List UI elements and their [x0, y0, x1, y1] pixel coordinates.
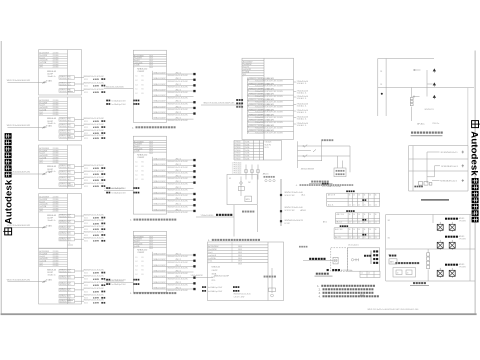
caption AL-21 system diagram	[130, 292, 176, 295]
svg-text:IP55: IP55	[212, 280, 216, 282]
panel block AL-11 (second column)	[133, 136, 195, 214]
sensor output symbols	[351, 258, 358, 261]
svg-text:4.5KW: 4.5KW	[93, 173, 99, 176]
svg-text:1F: 1F	[380, 84, 382, 86]
svg-text:220/380: 220/380	[53, 197, 59, 199]
svg-text:16: 16	[375, 194, 377, 196]
svg-text:4.5KW: 4.5KW	[93, 91, 99, 94]
svg-text:WDZN-BYJ-3x2.5-SC15-WC: WDZN-BYJ-3x2.5-SC15-WC	[168, 167, 189, 169]
svg-text:JZ 1AT1: JZ 1AT1	[46, 224, 53, 227]
svg-text:JV-1.5-4x2.5: JV-1.5-4x2.5	[348, 244, 359, 246]
svg-text:WDZN-BYJ-3x2.5-SC15: WDZN-BYJ-3x2.5-SC15	[234, 294, 251, 296]
svg-text:220/380: 220/380	[53, 199, 59, 201]
svg-text:4.5KW: 4.5KW	[93, 290, 99, 293]
svg-text:ZM 2.2: ZM 2.2	[176, 259, 181, 261]
svg-text:16: 16	[369, 229, 371, 231]
svg-text:220/380: 220/380	[53, 253, 59, 255]
svg-text:WDZN-BYJ-3x2.5-SC15-WC: WDZN-BYJ-3x2.5-SC15-WC	[84, 288, 105, 290]
svg-text:ZM 2.2: ZM 2.2	[176, 176, 181, 178]
ATS box label	[389, 255, 396, 257]
svg-text:WDZN-BYJ-3x2.5-SC15-WC: WDZN-BYJ-3x2.5-SC15-WC	[84, 214, 105, 216]
svg-text:2.5: 2.5	[358, 237, 360, 239]
svg-text:WDZN-BYJ-3x2.5-SC15-WC: WDZN-BYJ-3x2.5-SC15-WC	[168, 273, 189, 275]
svg-text:B1: B1	[142, 179, 144, 181]
elevator right label	[264, 276, 276, 278]
svg-text:16: 16	[369, 214, 371, 216]
svg-text:ZM 2.2: ZM 2.2	[176, 254, 181, 256]
svg-text:B1: B1	[142, 270, 144, 272]
svg-text:L2: L2	[368, 273, 370, 275]
svg-text:WDZN-BYJ-3x2.5-SC15-WC: WDZN-BYJ-3x2.5-SC15-WC	[168, 290, 189, 292]
svg-text:220/380: 220/380	[53, 208, 59, 210]
svg-text:YJV22-4x50+1x25-SC65: YJV22-4x50+1x25-SC65	[104, 188, 123, 190]
svg-text:WDZN-BYJ-3x2.5-SC15-WC: WDZN-BYJ-3x2.5-SC15-WC	[168, 120, 189, 122]
svg-text:AP-B2a: AP-B2a	[417, 123, 425, 126]
svg-text:YJV-4x25+1x16: YJV-4x25+1x16	[297, 96, 308, 98]
svg-text:B1: B1	[142, 76, 144, 78]
riser bus wire	[280, 179, 282, 226]
svg-text:XF 15KW: XF 15KW	[459, 266, 466, 268]
svg-text:220/380: 220/380	[53, 206, 59, 208]
svg-text:2.5: 2.5	[364, 205, 366, 207]
svg-text:SC15: SC15	[84, 85, 88, 87]
svg-text:1. PE-N 25x4: 1. PE-N 25x4	[232, 167, 242, 169]
feeder wire into AL-1	[7, 80, 47, 83]
svg-text:SC15: SC15	[84, 303, 88, 305]
svg-text:~: ~	[212, 284, 213, 286]
svg-text:16: 16	[349, 229, 351, 231]
svg-text:WDZN-BYJ 3x2.5: WDZN-BYJ 3x2.5	[60, 120, 72, 122]
SPD note cluster elevator	[202, 286, 239, 293]
svg-text:SC15: SC15	[84, 235, 88, 237]
table 1 lighting circuits	[327, 190, 380, 206]
svg-text:WDZN-BYJ-3x2.5-SC15-WC: WDZN-BYJ-3x2.5-SC15-WC	[168, 178, 189, 180]
svg-text:220/380: 220/380	[53, 201, 59, 203]
svg-text:WDZN-BYJ-3x2.5-SC15-WC: WDZN-BYJ-3x2.5-SC15-WC	[168, 92, 189, 94]
svg-text:WDZN-BYJ-3x2.5-SC15-WC: WDZN-BYJ-3x2.5-SC15-WC	[168, 75, 189, 77]
panel block AL-5 (left column)	[39, 248, 106, 305]
svg-text:ZM 2.2: ZM 2.2	[176, 198, 181, 200]
svg-text:JZ 1AT1: JZ 1AT1	[46, 279, 53, 282]
svg-text:YJV-4x25+1x16-SC40-FC-WC 35.5K: YJV-4x25+1x16-SC40-FC-WC 35.5KW	[255, 122, 283, 124]
svg-text:220/380: 220/380	[53, 107, 59, 109]
note line under ladder	[296, 184, 353, 187]
fire power rail middle	[386, 248, 475, 250]
SPD note cluster 3	[106, 279, 139, 286]
svg-text:YJV-4x25+1x16-SC40-FC-WC 35.5K: YJV-4x25+1x16-SC40-FC-WC 35.5KW	[255, 91, 283, 93]
caption AL-11 system diagram	[130, 219, 176, 222]
svg-text:YJV-4x25+1x16: YJV-4x25+1x16	[297, 116, 308, 118]
svg-text:1. PE-N 25x4: 1. PE-N 25x4	[232, 165, 242, 167]
svg-text:In>20kA Up<2.5kV: In>20kA Up<2.5kV	[112, 103, 127, 106]
svg-text:WDZN-BYJ-3x2.5-SC15-WC: WDZN-BYJ-3x2.5-SC15-WC	[84, 171, 105, 173]
svg-text:YL: YL	[69, 243, 71, 245]
svg-text:SC15: SC15	[84, 279, 88, 281]
panel block AL-2 (left column)	[39, 97, 106, 141]
svg-text:220/380: 220/380	[53, 62, 59, 64]
svg-text:220/380: 220/380	[53, 204, 59, 206]
svg-text:WDZN-BYJ 3x2.5: WDZN-BYJ 3x2.5	[60, 78, 72, 80]
svg-text:2.5: 2.5	[375, 237, 377, 239]
ladder caption	[309, 181, 333, 185]
svg-text:NXB-63 C16/1P: NXB-63 C16/1P	[154, 192, 167, 194]
node AA1 label	[236, 99, 243, 108]
svg-text:NXB-63 C16/1P: NXB-63 C16/1P	[154, 187, 167, 189]
thick divider bar	[421, 199, 449, 201]
svg-text:220/380: 220/380	[53, 155, 59, 157]
svg-text:220/380: 220/380	[53, 114, 59, 116]
svg-text:YL: YL	[69, 183, 71, 185]
svg-text:16: 16	[358, 229, 360, 231]
wire drop right of EPS	[257, 205, 259, 232]
terminal bracket to control box	[364, 250, 378, 264]
svg-text:WDZN-BYJ 3x2.5: WDZN-BYJ 3x2.5	[60, 234, 72, 236]
svg-text:AL-1: AL-1	[302, 194, 306, 197]
dual-power transfer group 3	[437, 263, 466, 278]
svg-text:In>20kA Up<2.5kV: In>20kA Up<2.5kV	[112, 192, 127, 195]
feeder wire into AL-4	[7, 225, 47, 228]
svg-text:WDZN-BYJ 3x2.5: WDZN-BYJ 3x2.5	[60, 240, 72, 242]
svg-text:2F: 2F	[380, 71, 382, 73]
svg-text:4.5KW: 4.5KW	[93, 132, 99, 135]
svg-text:2.5: 2.5	[375, 205, 377, 207]
svg-text:220/380: 220/380	[53, 265, 59, 267]
svg-text:NXB-63 C16/1P: NXB-63 C16/1P	[154, 118, 167, 120]
svg-text:WDZ-YJY-4x10-SC40-FC-WC: WDZ-YJY-4x10-SC40-FC-WC	[7, 80, 31, 82]
svg-text:L1: L1	[136, 89, 138, 91]
svg-text:WDZN-BYJ-3x2.5-SC15-WC: WDZN-BYJ-3x2.5-SC15-WC	[84, 226, 105, 228]
svg-text:NXB-63 C16/1P: NXB-63 C16/1P	[154, 159, 167, 161]
svg-text:In>20kA Up<2.5kV: In>20kA Up<2.5kV	[208, 286, 223, 289]
svg-text:NXB-63 C16/1P: NXB-63 C16/1P	[154, 84, 167, 86]
svg-text:YJV-4x25+1x16: YJV-4x25+1x16	[297, 123, 308, 125]
svg-text:YJV-4x25+1x16-SC40-FC-WC 35.5K: YJV-4x25+1x16-SC40-FC-WC 35.5KW	[255, 133, 283, 135]
svg-text:CJK DT 1.5KW: CJK DT 1.5KW	[234, 296, 245, 298]
svg-text:B1: B1	[388, 237, 390, 239]
table 3 power circuits	[334, 225, 380, 239]
feeder wire into AA1	[201, 102, 242, 105]
svg-text:220/380: 220/380	[53, 256, 59, 258]
svg-text:4.5KW: 4.5KW	[93, 228, 99, 231]
svg-text:WDZN-BYJ-3x2.5-SC15-WC: WDZN-BYJ-3x2.5-SC15-WC	[84, 135, 105, 137]
svg-text:2.5: 2.5	[369, 222, 371, 224]
feeder wire into AL-2	[7, 125, 47, 128]
svg-text:16: 16	[353, 214, 355, 216]
svg-text:L1: L1	[136, 162, 138, 164]
svg-text:N2 WDZN-BYJ-3x2.5: N2 WDZN-BYJ-3x2.5	[441, 166, 458, 168]
svg-text:In>20kA Up<2.5kV: In>20kA Up<2.5kV	[208, 290, 223, 293]
svg-text:B1: B1	[142, 93, 144, 95]
svg-text:SC15: SC15	[84, 285, 88, 287]
svg-text:WDZN-BYJ-3x2.5-SC15-WC: WDZN-BYJ-3x2.5-SC15-WC	[168, 189, 189, 191]
svg-text:YJV-4x25+1x16-SC40-FC-WC 35.5K: YJV-4x25+1x16-SC40-FC-WC 35.5KW	[255, 117, 283, 119]
svg-text:WDZN-BYJ-3x2.5-SC15-WC: WDZN-BYJ-3x2.5-SC15-WC	[84, 124, 105, 126]
elevator panel block AL-E1	[208, 242, 284, 301]
riser caption underlined	[411, 132, 443, 137]
svg-text:B1: B1	[142, 265, 144, 267]
svg-text:L3: L3	[136, 84, 138, 86]
detail caption underlined	[315, 273, 333, 277]
AA1 outgoing feeder labels	[294, 81, 309, 127]
svg-text:L1: L1	[136, 270, 138, 272]
svg-text:Autodesk: Autodesk	[469, 131, 480, 176]
svg-text:WDZN-BYJ 3x2.5: WDZN-BYJ 3x2.5	[60, 222, 72, 224]
svg-text:ZM 2.2: ZM 2.2	[176, 187, 181, 189]
svg-text:ZM 2.2: ZM 2.2	[176, 164, 181, 166]
svg-text:30mA 0.1s: 30mA 0.1s	[48, 219, 56, 222]
svg-text:WDZN-BYJ-3x2.5-SC15-WC: WDZN-BYJ-3x2.5-SC15-WC	[84, 130, 105, 132]
svg-text:4.5KW: 4.5KW	[93, 179, 99, 182]
svg-text:~: ~	[134, 67, 135, 69]
svg-text:WDZ-YJY-4x10-SC40-FC-WC: WDZ-YJY-4x10-SC40-FC-WC	[7, 172, 31, 174]
svg-text:B1: B1	[142, 166, 144, 168]
svg-text:XF 15KW: XF 15KW	[459, 220, 466, 222]
svg-text:NXB-63 C16/1P: NXB-63 C16/1P	[154, 170, 167, 172]
svg-text:WDZN-BYJ-3x2.5-SC15-WC: WDZN-BYJ-3x2.5-SC15-WC	[168, 262, 189, 264]
svg-text:DTS634: DTS634	[235, 144, 241, 146]
svg-text:1. PE-N 25x4: 1. PE-N 25x4	[232, 169, 242, 171]
vertical trunk riser rails	[378, 59, 474, 117]
svg-text:B1: B1	[142, 89, 144, 91]
svg-text:WDZN-BYJ 3x2.5: WDZN-BYJ 3x2.5	[60, 84, 72, 86]
svg-text:2.5: 2.5	[349, 237, 351, 239]
svg-text:~: ~	[208, 264, 209, 266]
svg-text:220/380: 220/380	[53, 57, 59, 59]
svg-text:WDZN-BYJ 3x2.5: WDZN-BYJ 3x2.5	[60, 228, 72, 230]
svg-text:B1: B1	[142, 84, 144, 86]
svg-text:B2: B2	[388, 220, 390, 222]
svg-text:ZM 2.2: ZM 2.2	[176, 192, 181, 194]
svg-text:L1: L1	[136, 257, 138, 259]
svg-text:In>20kA Up<2.5kV: In>20kA Up<2.5kV	[112, 99, 127, 102]
svg-text:B1: B1	[142, 162, 144, 164]
svg-text:WDZN-RYJ: WDZN-RYJ	[425, 109, 434, 111]
svg-text:WDZN-BYJ 3x2.5: WDZN-BYJ 3x2.5	[60, 290, 72, 292]
svg-text:SC15: SC15	[84, 223, 88, 225]
emergency lighting step wiring	[427, 151, 464, 183]
svg-text:YJV-4x25+1x16: YJV-4x25+1x16	[297, 81, 308, 83]
svg-text:C180/3P: C180/3P	[137, 157, 145, 159]
svg-text:WDZN-BYJ-3x2.5-SC15-WC: WDZN-BYJ-3x2.5-SC15-WC	[168, 184, 189, 186]
fire power right rail	[469, 215, 471, 282]
svg-text:ZM 2.2: ZM 2.2	[176, 106, 181, 108]
svg-text:2.5: 2.5	[358, 205, 360, 207]
svg-text:WDZN-BYJ-3x2.5-SC15-WC: WDZN-BYJ-3x2.5-SC15-WC	[84, 118, 105, 120]
fire power rail bottom	[386, 280, 475, 282]
svg-text:SC15: SC15	[84, 180, 88, 182]
svg-text:2.5: 2.5	[353, 205, 355, 207]
svg-text:220/380: 220/380	[53, 153, 59, 155]
feeder wire into AL-5	[7, 279, 47, 282]
svg-text:16: 16	[353, 229, 355, 231]
EPS emergency lighting box	[227, 174, 257, 204]
svg-text:16: 16	[364, 214, 366, 216]
svg-text:YJV-4x25+1x16-SC40-FC-WC 35.5K: YJV-4x25+1x16-SC40-FC-WC 35.5KW	[255, 86, 283, 88]
svg-text:1. PE-N 25x4: 1. PE-N 25x4	[232, 163, 242, 165]
svg-text:B1: B1	[142, 175, 144, 177]
svg-text:ZM 2.2: ZM 2.2	[176, 112, 181, 114]
svg-text:NXBLE-63 C40/3P: NXBLE-63 C40/3P	[214, 275, 230, 277]
table 2 socket circuits	[335, 210, 379, 223]
svg-text:ZM 2.2: ZM 2.2	[176, 78, 181, 80]
svg-text:SC15: SC15	[84, 291, 88, 293]
svg-text:16: 16	[349, 214, 351, 216]
svg-text:YJV22-4x50+1x25-SC65: YJV22-4x50+1x25-SC65	[104, 87, 123, 89]
svg-text:L2: L2	[136, 80, 138, 82]
riser lamp symbols	[433, 68, 436, 99]
table 2 left label	[323, 221, 327, 224]
svg-text:220/380: 220/380	[53, 60, 59, 62]
svg-text:NXB-63 C16/1P: NXB-63 C16/1P	[154, 78, 167, 80]
svg-text:220/380: 220/380	[53, 100, 59, 102]
svg-text:YJV-4x10-SC40: YJV-4x10-SC40	[201, 215, 214, 217]
title text near bottom border	[368, 309, 420, 311]
svg-text:~: ~	[243, 76, 244, 78]
svg-text:ZM 2.2: ZM 2.2	[176, 204, 181, 206]
svg-text:2.5: 2.5	[369, 205, 371, 207]
svg-text:XF 15KW: XF 15KW	[459, 238, 466, 240]
svg-text:WDZN-BYJ 3x2.5: WDZN-BYJ 3x2.5	[60, 278, 72, 280]
svg-text:220/380: 220/380	[53, 67, 59, 69]
svg-text:WDZN-BYJ 3x2.5: WDZN-BYJ 3x2.5	[60, 167, 72, 169]
svg-text:SC15: SC15	[84, 127, 88, 129]
svg-text:WDZN-BYJ-3x2.5-SC15-WC: WDZN-BYJ-3x2.5-SC15-WC	[168, 115, 189, 117]
svg-text:220/380: 220/380	[53, 105, 59, 107]
annex box right of meter table	[264, 140, 282, 160]
svg-text:SC15: SC15	[84, 174, 88, 176]
svg-text:220/380: 220/380	[53, 157, 59, 159]
svg-text:YL: YL	[69, 90, 71, 92]
svg-text:YJV-4x25+1x16: YJV-4x25+1x16	[297, 103, 308, 105]
svg-text:30mA 0.1s: 30mA 0.1s	[48, 75, 56, 78]
svg-text:ZM 2.2: ZM 2.2	[176, 95, 181, 97]
svg-text:ZM 2.2: ZM 2.2	[176, 181, 181, 183]
svg-text:4.5KW: 4.5KW	[93, 297, 99, 300]
svg-text:2.5: 2.5	[349, 205, 351, 207]
svg-text:SC15: SC15	[84, 241, 88, 243]
svg-text:16: 16	[358, 214, 360, 216]
svg-text:AW-D1: AW-D1	[263, 173, 269, 176]
svg-text:2.5: 2.5	[375, 222, 377, 224]
riser branch breakers	[413, 69, 433, 97]
svg-text:L3: L3	[136, 170, 138, 172]
svg-text:ZM 2.2: ZM 2.2	[176, 118, 181, 120]
svg-text:SC40 FC: SC40 FC	[265, 144, 272, 146]
svg-text:ZM 2.2: ZM 2.2	[176, 101, 181, 103]
svg-text:SC15: SC15	[84, 186, 88, 188]
svg-text:2.5: 2.5	[369, 237, 371, 239]
svg-text:~: ~	[134, 153, 135, 155]
svg-text:4.5KW: 4.5KW	[93, 185, 99, 188]
svg-text:YJV-4x25: YJV-4x25	[265, 142, 272, 144]
svg-text:WDZ-YJY-4x16-SC40-FC-WC: WDZ-YJY-4x16-SC40-FC-WC	[7, 279, 31, 281]
svg-text:AP-1: AP-1	[323, 221, 327, 224]
detail top label	[299, 246, 307, 248]
svg-text:2.5: 2.5	[364, 237, 366, 239]
feeder wire into EPS	[196, 214, 234, 217]
notes stack under meter table	[232, 163, 242, 175]
wire drop from EPS	[233, 205, 235, 237]
svg-text:NXB-63 C16/1P: NXB-63 C16/1P	[154, 282, 167, 284]
svg-text:JBK3-63 380/36V: JBK3-63 380/36V	[301, 168, 315, 170]
group drop wire	[432, 215, 434, 224]
svg-text:NXB-63 C16/1P: NXB-63 C16/1P	[154, 112, 167, 114]
feeder wire into AL-B1	[104, 87, 133, 89]
svg-text:4.5KW: 4.5KW	[93, 120, 99, 123]
svg-text:WDZN-BYJ 3x2.5: WDZN-BYJ 3x2.5	[60, 179, 72, 181]
feeder wire into AL-21	[104, 281, 133, 283]
svg-text:4.5KW: 4.5KW	[93, 167, 99, 170]
svg-text:SC15: SC15	[84, 133, 88, 135]
caption elevator panel system diagram	[208, 239, 260, 242]
svg-text:NXB-63 C16/1P: NXB-63 C16/1P	[154, 198, 167, 200]
svg-text:YJV-4x25+1x16-SC40-FC-WC 35.5K: YJV-4x25+1x16-SC40-FC-WC 35.5KW	[255, 81, 283, 83]
svg-text:SC15: SC15	[84, 298, 88, 300]
svg-text:SC40 FC WC: SC40 FC WC	[285, 195, 296, 197]
panel block AL-1 (left column)	[39, 50, 106, 95]
svg-text:WDZN-BYJ-3x2.5-SC15-WC: WDZN-BYJ-3x2.5-SC15-WC	[84, 232, 105, 234]
svg-text:WDZN-BYJ-3x2.5-SC15-WC: WDZN-BYJ-3x2.5-SC15-WC	[168, 201, 189, 203]
svg-text:WDZN-YJY-4x16+1x10: WDZN-YJY-4x16+1x10	[285, 207, 303, 209]
watermark left edge (Autodesk educational)	[3, 133, 14, 235]
svg-text:4.5KW: 4.5KW	[93, 284, 99, 287]
svg-text:DTS634: DTS634	[235, 156, 241, 158]
svg-text:B1: B1	[142, 257, 144, 259]
svg-text:1#: 1#	[397, 272, 399, 274]
EPS caption	[242, 211, 254, 213]
svg-text:WDZN-BYJ-5x10-SC25: WDZN-BYJ-5x10-SC25	[285, 220, 303, 222]
svg-text:ZM 2.2: ZM 2.2	[176, 84, 181, 86]
fire power rail top	[386, 214, 475, 216]
fire pump caption underlined	[410, 282, 429, 286]
dual-power transfer group 1	[437, 217, 466, 232]
detail note row	[327, 269, 353, 272]
svg-text:N3 WDZN-BYJ-3x2.5: N3 WDZN-BYJ-3x2.5	[440, 181, 457, 183]
svg-text:WDZN-YJY-4x25+1x16: WDZN-YJY-4x25+1x16	[285, 192, 303, 194]
svg-text:WDZN-BYJ-3x2.5-SC15-WC: WDZN-BYJ-3x2.5-SC15-WC	[84, 300, 105, 302]
svg-text:220/380: 220/380	[53, 160, 59, 162]
watermark right edge (Autodesk educational)	[469, 121, 480, 223]
svg-text:16: 16	[364, 194, 366, 196]
svg-text:WDZN-BYJ 3x2.5: WDZN-BYJ 3x2.5	[60, 126, 72, 128]
svg-text:YL: YL	[69, 299, 71, 301]
svg-text:220/380: 220/380	[53, 162, 59, 164]
svg-text:WDZN-BYJ-3x2.5-SC15-WC: WDZN-BYJ-3x2.5-SC15-WC	[168, 212, 189, 214]
svg-text:YJV-4x25+1x16-SC40-FC-WC 35.5K: YJV-4x25+1x16-SC40-FC-WC 35.5KW	[255, 101, 283, 103]
svg-text:220/380: 220/380	[53, 263, 59, 265]
svg-text:2.5: 2.5	[353, 222, 355, 224]
SPD note cluster 1	[106, 99, 139, 106]
terminal sub-table	[360, 271, 380, 277]
svg-text:220/380: 220/380	[53, 112, 59, 114]
svg-text:ZM 2.2: ZM 2.2	[176, 271, 181, 273]
svg-text:30mA 0.1s: 30mA 0.1s	[48, 273, 56, 276]
svg-text:NXB-63 C16/1P: NXB-63 C16/1P	[154, 276, 167, 278]
sheet left border	[0, 41, 2, 315]
sheet bottom border	[1, 313, 477, 315]
svg-text:220/380: 220/380	[53, 64, 59, 66]
svg-text:N1 WDZN-BYJ-3x2.5: N1 WDZN-BYJ-3x2.5	[441, 152, 458, 154]
svg-text:4.5KW: 4.5KW	[93, 278, 99, 281]
main distribution panel AA1	[242, 58, 294, 139]
svg-text:16: 16	[349, 194, 351, 196]
svg-text:WDZN-BYJ-3x2.5-SC15-WC: WDZN-BYJ-3x2.5-SC15-WC	[84, 165, 105, 167]
svg-text:WDZN-BYJ-3x2.5-SC15-WC: WDZN-BYJ-3x2.5-SC15-WC	[84, 220, 105, 222]
emergency lighting panel cluster	[414, 182, 432, 188]
svg-text:16: 16	[358, 194, 360, 196]
svg-text:16: 16	[375, 214, 377, 216]
svg-text:L2: L2	[136, 274, 138, 276]
